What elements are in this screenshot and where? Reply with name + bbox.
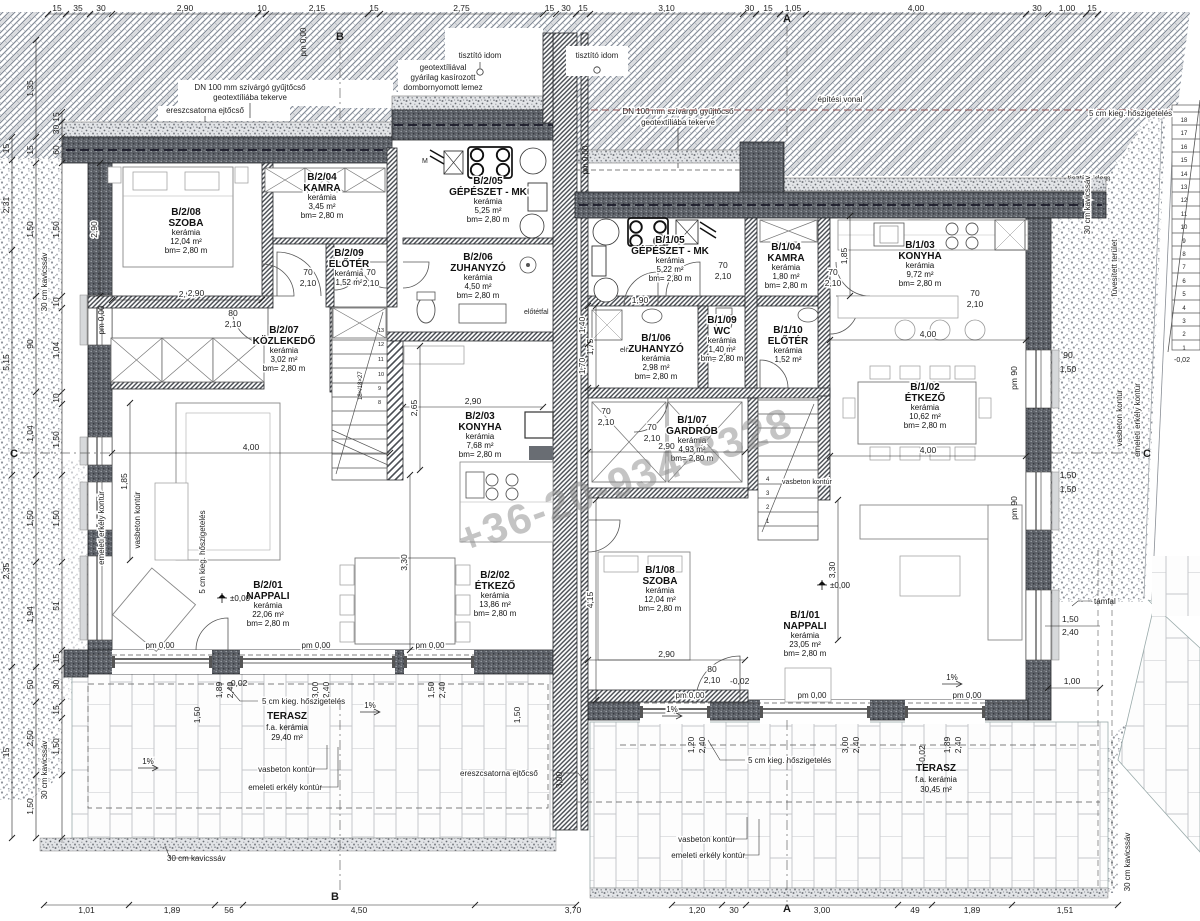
svg-text:30: 30 [1032,3,1042,13]
svg-text:bm= 2,80 m: bm= 2,80 m [263,364,306,373]
svg-text:15: 15 [763,3,773,13]
svg-text:B/1/10: B/1/10 [773,325,803,336]
svg-text:támfal: támfal [1094,597,1116,606]
svg-text:15: 15 [25,145,35,155]
svg-text:-0,02: -0,02 [917,745,927,765]
svg-text:90: 90 [1063,350,1073,360]
svg-text:15: 15 [1,144,11,154]
svg-text:2,90: 2,90 [177,3,194,13]
svg-text:10: 10 [51,393,61,403]
svg-text:13: 13 [378,328,384,334]
svg-text:kerámia: kerámia [464,273,493,282]
svg-text:1,80 m²: 1,80 m² [772,272,799,281]
svg-text:1,70: 1,70 [577,357,587,374]
svg-text:B/2/02: B/2/02 [480,570,510,581]
svg-text:B/1/02: B/1/02 [910,382,940,393]
svg-text:1,50: 1,50 [25,798,35,815]
svg-text:90: 90 [25,339,35,349]
svg-text:1,89: 1,89 [164,905,181,915]
svg-text:30: 30 [729,905,739,915]
svg-text:kerámia: kerámia [791,631,820,640]
svg-text:vasbeton kontúr: vasbeton kontúr [258,765,315,774]
svg-text:1,40 m²: 1,40 m² [708,345,735,354]
svg-text:kerámia: kerámia [481,591,510,600]
svg-text:15: 15 [51,112,61,122]
svg-text:9,72 m²: 9,72 m² [906,270,933,279]
svg-text:bm= 2,80 m: bm= 2,80 m [899,279,942,288]
svg-text:kerámia: kerámia [646,586,675,595]
svg-text:M: M [422,158,428,165]
svg-text:1,52 m²: 1,52 m² [335,278,362,287]
svg-text:30: 30 [96,3,106,13]
svg-text:12,04 m²: 12,04 m² [644,595,676,604]
svg-text:2,15: 2,15 [309,3,326,13]
svg-text:5 cm kieg. hőszigetelés: 5 cm kieg. hőszigetelés [748,756,831,765]
svg-text:11: 11 [1181,212,1188,218]
svg-text:1%: 1% [666,705,678,714]
svg-text:pm 90: pm 90 [1009,496,1019,520]
svg-text:2,90: 2,90 [188,288,205,298]
svg-text:49: 49 [910,905,920,915]
svg-text:15: 15 [369,3,379,13]
svg-text:2,90: 2,90 [465,396,482,406]
svg-text:gyárilag kasírozott: gyárilag kasírozott [411,73,477,82]
svg-text:51: 51 [51,601,61,611]
svg-text:kerámia: kerámia [172,228,201,237]
svg-text:geotextíliába tekerve: geotextíliába tekerve [213,93,287,102]
svg-text:ereszcsatorna ejtőcső: ereszcsatorna ejtőcső [460,769,538,778]
svg-text:1,50: 1,50 [1060,470,1077,480]
svg-text:15: 15 [545,3,555,13]
svg-text:18: 18 [1181,118,1188,124]
svg-text:B/2/03: B/2/03 [465,411,495,422]
svg-text:2,10: 2,10 [300,278,317,288]
svg-text:4,15: 4,15 [585,591,595,608]
svg-text:A: A [783,13,791,25]
svg-text:B/1/05: B/1/05 [655,235,685,246]
svg-text:C: C [1143,448,1151,460]
svg-text:2,10: 2,10 [598,417,615,427]
svg-text:bm= 2,80 m: bm= 2,80 m [165,246,208,255]
svg-text:B/1/04: B/1/04 [771,242,801,253]
svg-text:pm 0,00: pm 0,00 [798,691,827,700]
svg-text:5,15: 5,15 [1,354,11,371]
svg-text:bm= 2,80 m: bm= 2,80 m [301,211,344,220]
svg-text:30 cm kavicssáv: 30 cm kavicssáv [1083,176,1092,235]
svg-text:30: 30 [51,680,61,690]
svg-text:3,70: 3,70 [565,905,582,915]
svg-text:70: 70 [303,267,313,277]
svg-text:13,86 m²: 13,86 m² [479,600,511,609]
svg-text:1,89: 1,89 [964,905,981,915]
svg-text:5 cm kieg. hőszigetelés: 5 cm kieg. hőszigetelés [262,697,345,706]
svg-text:4,00: 4,00 [243,442,260,452]
svg-text:bm= 2,80 m: bm= 2,80 m [467,215,510,224]
svg-text:15: 15 [51,705,61,715]
svg-text:9: 9 [378,386,381,392]
svg-text:2,10: 2,10 [644,433,661,443]
svg-text:füvesített terület: füvesített terület [1110,239,1119,297]
svg-text:B/1/03: B/1/03 [905,240,935,251]
svg-text:kerámia: kerámia [335,269,364,278]
svg-text:35: 35 [73,3,83,13]
svg-text:30 cm kavicssáv: 30 cm kavicssáv [40,253,49,312]
svg-text:2,10: 2,10 [825,278,842,288]
svg-text:23,05 m²: 23,05 m² [789,640,821,649]
svg-text:B/2/08: B/2/08 [171,207,201,218]
svg-text:15: 15 [578,3,588,13]
svg-text:5,25 m²: 5,25 m² [474,206,501,215]
svg-text:1,50: 1,50 [1060,484,1077,494]
svg-text:1,20: 1,20 [689,905,706,915]
svg-text:DN 100 mm szívárgó gyűjtőcső: DN 100 mm szívárgó gyűjtőcső [194,83,306,92]
svg-text:60: 60 [51,145,61,155]
svg-text:B/2/06: B/2/06 [463,252,493,263]
svg-text:15: 15 [51,654,61,664]
svg-text:f.a. kerámia: f.a. kerámia [266,723,308,732]
svg-text:17: 17 [1181,131,1188,137]
svg-text:emeleti erkély kontúr: emeleti erkély kontúr [1133,383,1142,457]
svg-text:30,45 m²: 30,45 m² [920,785,952,794]
svg-text:±0,00: ±0,00 [830,581,851,590]
svg-text:B/1/06: B/1/06 [641,333,671,344]
svg-text:pm 90: pm 90 [1009,366,1019,390]
svg-text:B/1/01: B/1/01 [790,610,820,621]
svg-text:3,02 m²: 3,02 m² [270,355,297,364]
svg-text:16: 16 [1181,145,1188,151]
svg-text:bm= 2,80 m: bm= 2,80 m [784,649,827,658]
svg-text:10: 10 [257,3,267,13]
svg-text:80: 80 [228,308,238,318]
svg-text:10: 10 [51,297,61,307]
svg-text:30 cm kavicssáv: 30 cm kavicssáv [40,741,49,800]
svg-text:4,50 m²: 4,50 m² [464,282,491,291]
svg-text:bm= 2,80 m: bm= 2,80 m [457,291,500,300]
svg-text:kerámia: kerámia [911,403,940,412]
svg-text:kerámia: kerámia [270,346,299,355]
svg-text:emeleti erkély kontúr: emeleti erkély kontúr [97,491,106,565]
svg-text:1,50: 1,50 [25,510,35,527]
svg-text:bm= 2,80 m: bm= 2,80 m [639,604,682,613]
svg-text:56: 56 [224,905,234,915]
svg-text:2,98 m²: 2,98 m² [642,363,669,372]
svg-text:1,85: 1,85 [119,473,129,490]
svg-text:-0,02: -0,02 [1174,357,1190,364]
svg-text:A: A [783,903,791,915]
svg-text:2,65: 2,65 [409,399,419,416]
svg-text:12: 12 [378,342,384,348]
svg-text:TERASZ: TERASZ [267,711,307,722]
svg-text:1%: 1% [142,757,154,766]
svg-text:2,10: 2,10 [967,299,984,309]
svg-text:15: 15 [1087,3,1097,13]
svg-text:1,50: 1,50 [25,221,35,238]
svg-text:pm 0,00: pm 0,00 [97,305,106,334]
svg-text:12,04 m²: 12,04 m² [170,237,202,246]
svg-text:1,01: 1,01 [78,905,95,915]
svg-text:1,00: 1,00 [1064,676,1081,686]
svg-text:11: 11 [378,357,384,363]
svg-text:2,10: 2,10 [225,319,242,329]
svg-text:kerámia: kerámia [774,346,803,355]
svg-text:3,30: 3,30 [399,554,409,571]
svg-text:1,50: 1,50 [192,706,202,723]
svg-text:1,05: 1,05 [785,3,802,13]
svg-text:kerámia: kerámia [656,256,685,265]
svg-text:14: 14 [1181,172,1188,178]
svg-text:4,00: 4,00 [908,3,925,13]
svg-text:1,94: 1,94 [25,606,35,623]
svg-text:1,75: 1,75 [585,338,595,355]
svg-text:kerámia: kerámia [466,432,495,441]
svg-text:3,00: 3,00 [554,771,564,788]
svg-text:B/1/07: B/1/07 [677,415,707,426]
svg-text:ereszcsatorna ejtőcső: ereszcsatorna ejtőcső [166,106,244,115]
svg-text:5,22 m²: 5,22 m² [656,265,683,274]
svg-text:B: B [331,891,339,903]
svg-text:70: 70 [718,260,728,270]
svg-text:pm 0,00: pm 0,00 [299,27,308,56]
svg-text:kerámia: kerámia [474,197,503,206]
svg-text:1%: 1% [946,673,958,682]
svg-text:18×/18×27: 18×/18×27 [358,371,364,400]
svg-text:vasbeton kontúr: vasbeton kontúr [1115,389,1124,446]
svg-text:bm= 2,80 m: bm= 2,80 m [474,609,517,618]
svg-text:1,00: 1,00 [1059,3,1076,13]
svg-text:13: 13 [1181,185,1188,191]
svg-text:8: 8 [378,400,381,406]
svg-text:2,31: 2,31 [1,196,11,213]
svg-text:B/2/05: B/2/05 [473,176,503,187]
svg-text:80: 80 [707,664,717,674]
svg-text:pm 0,00: pm 0,00 [302,641,331,650]
svg-text:B/2/04: B/2/04 [307,172,337,183]
svg-text:emeleti erkély kontúr: emeleti erkély kontúr [248,783,322,792]
svg-text:B/1/09: B/1/09 [707,315,737,326]
svg-text:vasbeton kontúr: vasbeton kontúr [133,491,142,548]
svg-text:2,90: 2,90 [658,649,675,659]
svg-text:pm 0,00: pm 0,00 [416,641,445,650]
svg-text:bm= 2,80 m: bm= 2,80 m [765,281,808,290]
svg-text:B/2/01: B/2/01 [253,580,283,591]
svg-text:1,50: 1,50 [51,431,61,448]
svg-text:2,40: 2,40 [1062,627,1079,637]
svg-text:1,50: 1,50 [1060,364,1077,374]
svg-text:2,90: 2,90 [658,441,675,451]
svg-text:pm 0,00: pm 0,00 [146,641,175,650]
svg-text:2,10: 2,10 [715,271,732,281]
svg-text:30 cm kavicssáv: 30 cm kavicssáv [167,854,226,863]
svg-text:emeleti erkély kontúr: emeleti erkély kontúr [671,851,745,860]
svg-text:geotextíliával: geotextíliával [420,63,467,72]
svg-text:vasbeton kontúr: vasbeton kontúr [678,835,735,844]
svg-text:kerámia: kerámia [308,193,337,202]
svg-text:bm= 2,80 m: bm= 2,80 m [459,450,502,459]
svg-text:vasbeton kontúr: vasbeton kontúr [782,479,832,486]
svg-text:15: 15 [1181,158,1188,164]
svg-text:bm= 2,80 m: bm= 2,80 m [701,354,744,363]
svg-text:70: 70 [366,267,376,277]
svg-text:2,90: 2,90 [89,221,99,238]
svg-text:B/2/07: B/2/07 [269,325,299,336]
svg-text:10: 10 [378,372,384,378]
svg-text:bm= 2,80 m: bm= 2,80 m [247,619,290,628]
svg-text:C: C [10,448,18,460]
svg-text:1,40: 1,40 [577,316,587,333]
svg-text:1,04: 1,04 [51,341,61,358]
svg-text:15: 15 [1,748,11,758]
svg-text:DN 100 mm szívárgó gyűjtőcső: DN 100 mm szívárgó gyűjtőcső [622,107,734,116]
svg-text:bm= 2,80 m: bm= 2,80 m [635,372,678,381]
svg-text:2,75: 2,75 [453,3,470,13]
svg-text:15: 15 [52,3,62,13]
svg-text:-0,02: -0,02 [228,678,248,688]
svg-text:2,50: 2,50 [25,730,35,747]
svg-text:70: 70 [828,267,838,277]
svg-text:1,35: 1,35 [25,80,35,97]
svg-text:1,50: 1,50 [512,706,522,723]
svg-text:2,10: 2,10 [704,675,721,685]
svg-text:tisztító idom: tisztító idom [576,51,619,60]
svg-text:1,51: 1,51 [1057,905,1074,915]
svg-text:-0,02: -0,02 [730,676,750,686]
svg-text:kerámia: kerámia [772,263,801,272]
svg-text:1,85: 1,85 [839,247,849,264]
svg-text:30: 30 [51,125,61,135]
svg-text:30: 30 [745,3,755,13]
svg-text:1,04: 1,04 [25,425,35,442]
svg-text:1,50: 1,50 [51,221,61,238]
svg-text:1,90: 1,90 [632,295,649,305]
svg-text:építési vonal: építési vonal [818,95,863,104]
svg-text:dombornyomott lemez: dombornyomott lemez [403,83,482,92]
svg-text:7,68 m²: 7,68 m² [466,441,493,450]
svg-text:B/1/08: B/1/08 [645,565,675,576]
svg-text:10,62 m²: 10,62 m² [909,412,941,421]
svg-text:30: 30 [561,3,571,13]
svg-text:B/2/09: B/2/09 [334,248,364,259]
svg-text:3,00: 3,00 [814,905,831,915]
svg-text:3,30: 3,30 [827,561,837,578]
svg-text:1,50: 1,50 [1062,614,1079,624]
svg-text:kerámia: kerámia [708,336,737,345]
svg-text:1,50: 1,50 [51,738,61,755]
svg-text:3,10: 3,10 [658,3,675,13]
svg-text:kerámia: kerámia [642,354,671,363]
svg-text:bm= 2,80 m: bm= 2,80 m [904,421,947,430]
svg-text:4,00: 4,00 [920,445,937,455]
svg-text:5 cm kieg. hőszigetelés: 5 cm kieg. hőszigetelés [1089,109,1172,118]
svg-text:29,40 m²: 29,40 m² [271,733,303,742]
svg-text:22,06 m²: 22,06 m² [252,610,284,619]
svg-text:2,10: 2,10 [363,278,380,288]
svg-text:4,50: 4,50 [351,905,368,915]
svg-text:bm= 2,80 m: bm= 2,80 m [649,274,692,283]
svg-text:pm 0,00: pm 0,00 [953,691,982,700]
svg-text:2,35: 2,35 [1,562,11,579]
svg-text:1%: 1% [364,701,376,710]
svg-text:előtétfal: előtétfal [524,309,549,316]
svg-text:1,52 m²: 1,52 m² [774,355,801,364]
svg-text:kerámia: kerámia [906,261,935,270]
svg-text:70: 70 [970,288,980,298]
svg-text:5 cm kieg. hőszigetelés: 5 cm kieg. hőszigetelés [198,510,207,593]
svg-text:4,00: 4,00 [920,329,937,339]
svg-text:geotextíliába tekerve: geotextíliába tekerve [641,118,715,127]
svg-text:30 cm kavicssáv: 30 cm kavicssáv [1123,833,1132,892]
svg-text:50: 50 [25,680,35,690]
svg-text:1,50: 1,50 [51,510,61,527]
svg-text:3,45 m²: 3,45 m² [308,202,335,211]
svg-text:kerámia: kerámia [254,601,283,610]
svg-text:tisztító idom: tisztító idom [459,51,502,60]
svg-text:70: 70 [647,422,657,432]
svg-text:pm 0,00: pm 0,00 [676,691,705,700]
svg-text:f.a. kerámia: f.a. kerámia [915,775,957,784]
svg-text:70: 70 [601,406,611,416]
svg-text:±0,00: ±0,00 [230,594,251,603]
